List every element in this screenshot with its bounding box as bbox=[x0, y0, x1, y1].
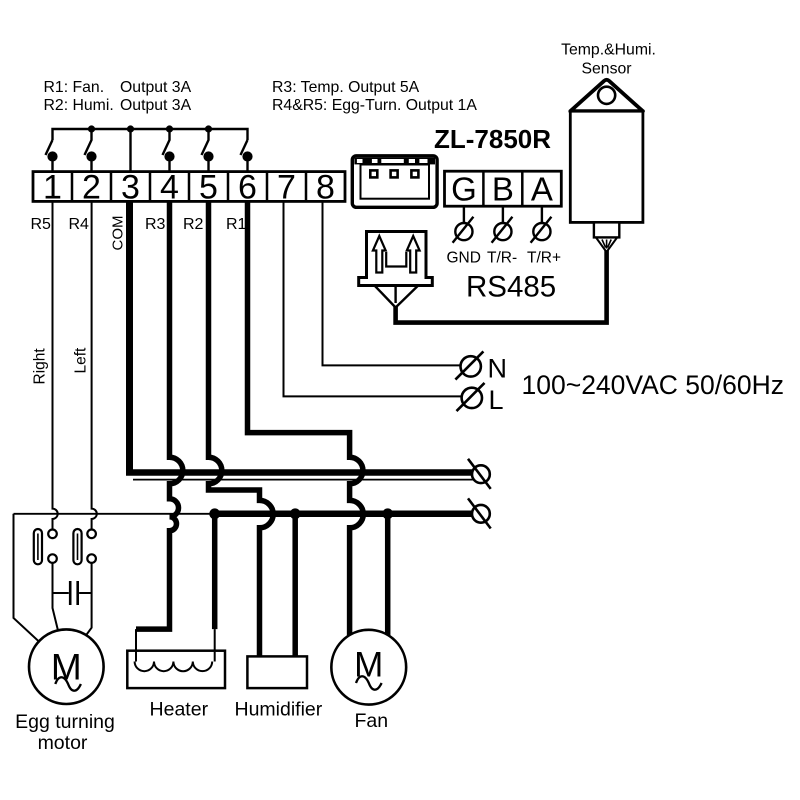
svg-text:3: 3 bbox=[121, 169, 140, 207]
svg-text:R4: R4 bbox=[69, 216, 90, 233]
svg-text:R5: R5 bbox=[31, 216, 52, 233]
svg-text:R3: Temp. Output 5A: R3: Temp. Output 5A bbox=[272, 79, 420, 96]
relay contact K2 (terminal 5) bbox=[202, 129, 213, 172]
relay contact K5 (terminal 1) bbox=[46, 140, 57, 172]
svg-text:4: 4 bbox=[160, 169, 179, 207]
svg-text:Left: Left bbox=[73, 347, 90, 374]
fan motor M bbox=[331, 630, 406, 705]
motor capacitor bbox=[53, 581, 92, 605]
label egg turning motor bbox=[15, 711, 115, 754]
humidifier bbox=[247, 656, 307, 688]
svg-text:R4&R5: Egg-Turn. Output 1A: R4&R5: Egg-Turn. Output 1A bbox=[272, 97, 477, 114]
svg-text:R1: Fan.: R1: Fan. bbox=[44, 79, 105, 96]
R4 wire terminal 2 with hop bbox=[92, 201, 97, 529]
svg-text:GND: GND bbox=[447, 250, 481, 267]
load bus wire 2 thin left segment (egg motor feed) bbox=[14, 513, 215, 515]
wire terminal 8 to N bbox=[323, 201, 461, 365]
svg-text:2: 2 bbox=[82, 169, 101, 207]
svg-text:R2: R2 bbox=[183, 216, 204, 233]
heater lead right thin bbox=[214, 629, 216, 661]
junction dot heater bbox=[209, 508, 220, 519]
R5 wire terminal 1 with hop bbox=[53, 201, 58, 529]
relay contact K3 (terminal 4) bbox=[163, 129, 174, 172]
svg-text:Right: Right bbox=[32, 348, 49, 385]
svg-text:RS485: RS485 bbox=[466, 271, 556, 304]
heater lead left thin bbox=[135, 629, 137, 661]
screw terminal A bbox=[531, 206, 552, 243]
svg-text:COM: COM bbox=[110, 216, 127, 251]
svg-text:G: G bbox=[451, 170, 477, 207]
egg motor left feed wire bbox=[14, 514, 39, 642]
sensor label bbox=[561, 42, 656, 78]
svg-text:Output 3A: Output 3A bbox=[120, 79, 192, 96]
svg-text:N: N bbox=[488, 354, 508, 384]
terminal block G B A bbox=[445, 170, 562, 207]
egg motor switch left slot bar bbox=[73, 529, 81, 564]
svg-text:Temp.&Humi.: Temp.&Humi. bbox=[561, 42, 656, 59]
svg-text:100~240VAC 50/60Hz: 100~240VAC 50/60Hz bbox=[522, 370, 785, 400]
screw terminal load bus 2 bbox=[468, 498, 491, 528]
sensor cable bbox=[396, 251, 607, 323]
svg-text:7: 7 bbox=[277, 169, 296, 207]
svg-text:Sensor: Sensor bbox=[581, 61, 631, 78]
screw terminal load bus 1 bbox=[468, 459, 491, 489]
svg-text:Egg turning: Egg turning bbox=[15, 711, 115, 733]
temp humi sensor body bbox=[570, 80, 643, 252]
junction dot humidifier bbox=[290, 508, 301, 519]
R3 wire terminal 4 to heater with hops bbox=[136, 201, 183, 629]
svg-text:A: A bbox=[531, 170, 553, 207]
labels GND T/R- T/R+ bbox=[447, 250, 562, 267]
bus junction dots bbox=[88, 125, 212, 132]
screw terminal B bbox=[492, 206, 513, 243]
svg-text:motor: motor bbox=[38, 732, 88, 754]
svg-text:R2: Humi.: R2: Humi. bbox=[44, 97, 114, 114]
wire terminal 7 to L bbox=[284, 201, 462, 396]
egg turning motor M bbox=[29, 629, 104, 704]
svg-text:B: B bbox=[492, 170, 514, 207]
relay contact bus bbox=[53, 129, 248, 140]
svg-text:8: 8 bbox=[316, 169, 335, 207]
egg motor wire from left contact bbox=[84, 563, 92, 638]
load bus wire 1 (COM line) bbox=[126, 469, 472, 476]
fan feed wire from bus 2 bbox=[385, 514, 391, 637]
svg-text:6: 6 bbox=[238, 169, 257, 207]
load bus wire 2 thick segment bbox=[215, 511, 473, 518]
RS485 plug connector bbox=[359, 232, 433, 286]
svg-text:Fan: Fan bbox=[354, 710, 388, 732]
svg-text:1: 1 bbox=[43, 169, 62, 207]
3-pin socket connector bbox=[352, 156, 437, 208]
R1 wire terminal 6 to fan with hops bbox=[248, 201, 364, 637]
heater element bbox=[127, 651, 225, 688]
legend relay outputs right bbox=[272, 79, 477, 114]
relay contact K1 (terminal 6) bbox=[241, 140, 252, 172]
heater feed wire from bus 2 bbox=[212, 514, 218, 629]
svg-text:Output 3A: Output 3A bbox=[120, 97, 192, 114]
legend relay outputs left bbox=[44, 79, 192, 114]
svg-text:ZL-7850R: ZL-7850R bbox=[434, 124, 551, 154]
humidifier feed wire from bus 2 bbox=[292, 514, 298, 657]
svg-text:Heater: Heater bbox=[150, 699, 209, 721]
svg-text:Humidifier: Humidifier bbox=[235, 699, 323, 721]
svg-text:L: L bbox=[489, 385, 504, 415]
screw terminal L bbox=[457, 383, 485, 411]
svg-text:R1: R1 bbox=[226, 216, 247, 233]
thin return wire under bus 1 bbox=[133, 479, 473, 481]
RS485 plug cable funnel bbox=[375, 286, 419, 308]
egg motor switch right slot bar bbox=[34, 529, 42, 564]
egg motor switch left contact bottom bbox=[87, 554, 96, 563]
egg motor switch right contact top bbox=[48, 530, 57, 539]
relay contact K4 (terminal 2) bbox=[85, 129, 96, 172]
svg-text:T/R+: T/R+ bbox=[527, 250, 561, 267]
COM thick wire from terminal 3 bbox=[126, 201, 133, 470]
egg motor switch right contact bottom bbox=[48, 554, 57, 563]
svg-text:R3: R3 bbox=[145, 216, 166, 233]
COM feed wire (terminal 3) bbox=[129, 129, 131, 172]
screw terminal G bbox=[453, 206, 474, 243]
screw terminal N bbox=[455, 351, 483, 379]
R2 wire terminal 5 to humidifier with hops bbox=[209, 201, 274, 656]
svg-text:5: 5 bbox=[199, 169, 218, 207]
egg motor wire from right contact bbox=[53, 563, 59, 631]
terminal block 1-8 bbox=[33, 169, 345, 207]
svg-text:T/R-: T/R- bbox=[487, 250, 517, 267]
egg motor switch left contact top bbox=[87, 530, 96, 539]
junction dot fan bbox=[382, 508, 393, 519]
